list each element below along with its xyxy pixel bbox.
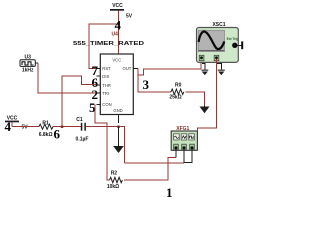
pin number 6 (junction) <box>54 127 61 142</box>
svg-text:GND: GND <box>113 108 122 113</box>
svg-text:4: 4 <box>5 119 12 134</box>
wire R0 to ground <box>186 92 205 106</box>
svg-text:6.8kΩ: 6.8kΩ <box>39 132 53 138</box>
svg-text:VCC: VCC <box>112 3 123 9</box>
pin number 3 <box>143 77 150 92</box>
wire OUT branch to R0 <box>138 75 171 92</box>
svg-text:0.1µF: 0.1µF <box>76 136 89 142</box>
svg-text:5V: 5V <box>21 124 28 130</box>
pin number 1 <box>166 185 173 200</box>
wire R1 to C1 <box>53 126 81 129</box>
svg-text:10kΩ: 10kΩ <box>107 184 119 190</box>
svg-text:3: 3 <box>143 77 150 92</box>
ground (scope B) <box>217 64 225 76</box>
wire net 6 (R1/C1 junction to THR with jog) <box>62 76 96 127</box>
resistor R0 <box>169 82 184 100</box>
svg-text:U4: U4 <box>112 32 119 38</box>
wire scope B to XFG1 <box>197 59 216 131</box>
resistor R1 <box>39 121 53 138</box>
resistor R2 <box>107 171 123 190</box>
label 555_TIMER_RATED <box>73 41 145 47</box>
svg-text:1kHz: 1kHz <box>22 68 34 74</box>
svg-text:VCC: VCC <box>112 58 121 63</box>
function generator XFG1 <box>171 126 197 150</box>
oscilloscope XSC1 <box>197 22 244 62</box>
pin number 6 <box>92 75 99 90</box>
pin number 5 <box>89 100 96 115</box>
wire net 4 (VCC to RST) <box>89 23 120 69</box>
capacitor C1 <box>76 117 89 143</box>
wire VCC supply to U4 top <box>118 11 120 55</box>
wire GND-net to XFG1 common <box>125 162 185 164</box>
svg-text:4: 4 <box>115 18 122 33</box>
svg-text:RST: RST <box>102 66 111 71</box>
svg-text:6: 6 <box>54 127 61 142</box>
svg-text:1: 1 <box>166 185 173 200</box>
svg-text:R0: R0 <box>175 82 182 88</box>
svg-text:Ext Trig: Ext Trig <box>227 37 239 41</box>
power VCC top <box>110 3 133 19</box>
pin number 4 (left) <box>5 119 12 134</box>
svg-text:TRI: TRI <box>102 91 109 96</box>
svg-text:R2: R2 <box>111 171 118 177</box>
ground (scope A) <box>201 64 208 76</box>
clock source U3 <box>20 54 38 73</box>
svg-text:555_TIMER_RATED: 555_TIMER_RATED <box>73 41 145 47</box>
svg-text:25kΩ: 25kΩ <box>169 95 181 101</box>
svg-text:OUT: OUT <box>122 66 131 71</box>
wire R2 to XFG1 plus terminal <box>124 157 176 180</box>
wire net 5 (CON to R2) <box>95 104 110 180</box>
power VCC left <box>5 116 28 131</box>
pin stubs U4 <box>96 68 138 123</box>
svg-text:C1: C1 <box>76 117 83 123</box>
XFG1 terminal stubs <box>176 149 192 163</box>
wire net 2 (U3 to TRI) <box>38 63 97 93</box>
pin number 2 <box>92 87 99 102</box>
ground (U4 GND) <box>113 127 124 153</box>
label U4 <box>112 32 119 38</box>
pin number 4 (top) <box>115 18 122 33</box>
svg-text:CON: CON <box>102 102 111 107</box>
IC U4 555 timer body <box>100 54 133 115</box>
wire VCC to R1 <box>12 126 39 128</box>
ground (R0) <box>200 106 210 113</box>
pin number 7 <box>92 63 99 78</box>
wire C1 to GND node and corner down <box>86 126 125 163</box>
svg-text:5V: 5V <box>126 14 133 20</box>
wire net 3 (OUT jog) <box>138 59 201 75</box>
svg-text:DIS: DIS <box>102 74 109 79</box>
svg-text:THR: THR <box>102 83 111 88</box>
